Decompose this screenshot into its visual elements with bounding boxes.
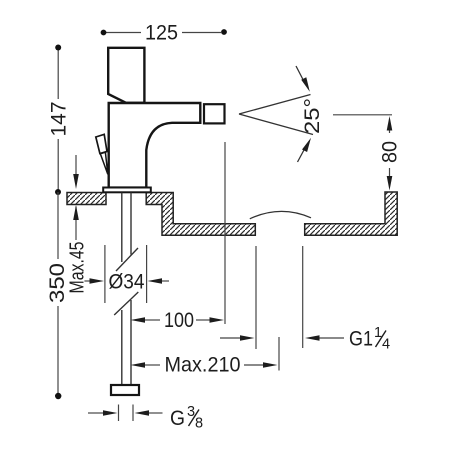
basin rim cross-section right (hatched) [305, 192, 398, 235]
outlet height reference line [333, 114, 392, 116]
dimension G1 1/4 arrows [220, 337, 240, 339]
pipe break mark upper [116, 248, 138, 271]
spray angle 25 deg V lines [239, 95, 311, 115]
pipe break mark lower [114, 292, 138, 315]
svg-text:100: 100 [164, 309, 194, 332]
dimension G1 1/4 label [349, 325, 390, 353]
drain dome arc [250, 211, 311, 218]
svg-text:147: 147 [48, 102, 71, 137]
lever handle knob [96, 134, 107, 153]
dimension G3/8 extension ticks [118, 405, 120, 422]
dimension 125 line [106, 32, 221, 34]
aerator at spout end [204, 104, 225, 123]
dimension 125 datum dots [101, 30, 107, 36]
svg-text:4: 4 [382, 337, 390, 353]
drain extension lines [256, 246, 303, 349]
dimension 80 line with arrows [389, 128, 391, 133]
spray angle leader arrow upper [296, 66, 304, 81]
spray angle leader arrow lower [298, 149, 305, 162]
dimension Max.210 line with arrows [145, 364, 160, 366]
svg-text:Max.210: Max.210 [165, 354, 241, 377]
faucet body and spout [109, 103, 201, 188]
svg-text:25°: 25° [301, 98, 324, 134]
countertop slab left (hatched) [67, 193, 106, 205]
G3/8 connector [111, 385, 139, 395]
dimension G3/8 label [170, 404, 203, 432]
supply pipe upper segment [122, 193, 131, 386]
basin rim cross-section left/step (hatched) [146, 193, 255, 236]
dimension Max.45 line upper with down arrow [75, 155, 77, 240]
Max.210 extension line [278, 337, 280, 371]
svg-text:125: 125 [145, 22, 178, 45]
svg-text:8: 8 [195, 416, 203, 432]
lever handle stem [100, 152, 108, 174]
dimension 100 line with arrows [145, 319, 160, 321]
dimension 350 line [57, 192, 59, 396]
dimension 147 line [57, 48, 59, 193]
dimension Ø34 extension lines [105, 245, 147, 303]
faucet base plate [103, 188, 151, 193]
svg-text:Ø34: Ø34 [109, 271, 145, 294]
dimension Ø34 arrows [84, 280, 91, 282]
svg-text:G: G [170, 407, 185, 430]
svg-text:G1: G1 [349, 328, 373, 351]
spout tip extension line [224, 142, 226, 324]
faucet handle [108, 48, 144, 103]
dimension G3/8 line with arrows [88, 412, 104, 414]
dimension 147 datum dots [55, 45, 61, 51]
svg-text:Max.45: Max.45 [67, 242, 89, 294]
dimension 350 datum dot [55, 393, 61, 399]
svg-text:80: 80 [379, 141, 402, 163]
